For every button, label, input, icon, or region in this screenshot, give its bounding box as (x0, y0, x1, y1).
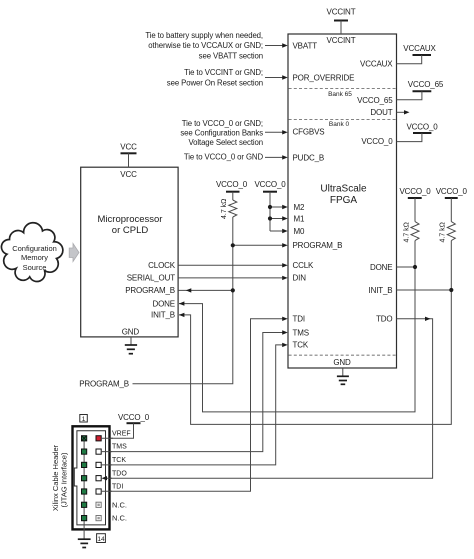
svg-text:GND: GND (333, 358, 351, 367)
svg-text:Tie to battery supply when nee: Tie to battery supply when needed, (145, 31, 263, 40)
svg-text:FPGA: FPGA (330, 195, 358, 206)
svg-text:VCCO_0: VCCO_0 (254, 180, 286, 189)
wire mode pins net M2 M1 M0 (270, 192, 288, 234)
svg-text:VCCO_0: VCCO_0 (436, 187, 468, 196)
wire TMS net (101, 330, 288, 451)
annotation CFGBVS note (180, 119, 287, 147)
power flag VCCO_0 over mode pins (254, 180, 286, 192)
svg-text:TMS: TMS (112, 444, 127, 451)
svg-text:VCCO_0: VCCO_0 (399, 187, 431, 196)
junction INIT_B pull-up (449, 288, 453, 292)
resistor R1 4.7k pull-up PROGRAM_B (221, 192, 237, 219)
svg-text:TCK: TCK (293, 341, 309, 350)
junction DONE pull-up (413, 265, 417, 269)
header pin 12 NC (96, 502, 101, 507)
svg-text:DONE: DONE (152, 299, 175, 308)
svg-text:POR_OVERRIDE: POR_OVERRIDE (293, 73, 355, 82)
svg-text:INIT_B: INIT_B (369, 286, 393, 295)
power flag VCCO_0 over R1 (216, 180, 248, 192)
DOUT output wire and arrow (397, 110, 410, 114)
wire PROGRAM_B net vertical (133, 217, 233, 384)
wire stubs from header pins (101, 438, 113, 491)
svg-text:TMS: TMS (293, 328, 309, 337)
microprocessor U2 box (81, 167, 178, 337)
svg-text:4.7 kΩ: 4.7 kΩ (221, 199, 228, 219)
FPGA U1 box (288, 34, 397, 368)
svg-text:Memory: Memory (21, 253, 48, 262)
header pin 4 TMS (96, 449, 101, 454)
wire VREF net (101, 423, 134, 438)
ground symbol header (78, 539, 91, 547)
microprocessor title (98, 214, 163, 236)
svg-text:VREF: VREF (112, 430, 131, 437)
svg-text:VCCINT: VCCINT (327, 36, 356, 45)
header pin 13 GND (82, 516, 87, 521)
wire CCLK net (178, 263, 288, 267)
wire PROGRAM_B to microprocessor (178, 288, 233, 292)
power flag VCC (120, 142, 137, 167)
svg-text:1: 1 (82, 416, 86, 423)
svg-text:Tie to VCCO_0 or GND;: Tie to VCCO_0 or GND; (182, 119, 263, 128)
header pin 8 TDO (96, 476, 101, 481)
annotation POR_OVERRIDE note (167, 68, 288, 87)
svg-text:Bank 0: Bank 0 (329, 121, 350, 128)
svg-text:M2: M2 (294, 203, 306, 212)
wire INIT_B net (179, 241, 451, 425)
arrowhead into header TDO pin (102, 476, 108, 480)
svg-text:Configuration: Configuration (12, 244, 57, 253)
svg-text:Tie to VCCINT or GND;: Tie to VCCINT or GND; (184, 68, 263, 77)
svg-text:TCK: TCK (112, 457, 126, 464)
junction M1 (268, 216, 272, 220)
svg-text:VCCINT: VCCINT (327, 7, 356, 16)
FPGA GND separator (289, 354, 396, 356)
junction PROGRAM_B uP (231, 288, 235, 292)
FPGA bank separator Bank 0 (289, 120, 396, 129)
wire DONE net (179, 241, 415, 412)
svg-text:PUDC_B: PUDC_B (293, 153, 325, 162)
svg-text:CCLK: CCLK (293, 261, 315, 270)
header pin1 index label (80, 415, 88, 423)
ground symbol microprocessor (125, 337, 137, 354)
svg-text:Voltage Select section: Voltage Select section (188, 138, 263, 147)
svg-text:DONE: DONE (370, 263, 393, 272)
header inner outline with key notch (74, 431, 105, 525)
resistor R3 4.7k pull-up INIT_B (440, 198, 456, 243)
header pin 10 TDI (96, 489, 101, 494)
svg-text:DOUT: DOUT (370, 108, 392, 117)
wire TDO net (102, 317, 433, 481)
wire TDI net (101, 317, 288, 492)
svg-text:M1: M1 (294, 214, 306, 223)
junction M2 (268, 205, 272, 209)
svg-text:CFGBVS: CFGBVS (293, 128, 325, 137)
svg-text:VCCO_65: VCCO_65 (408, 80, 444, 89)
svg-text:see Configuration Banks: see Configuration Banks (180, 129, 263, 138)
resistor R2 4.7k pull-up DONE (404, 198, 420, 243)
power flag VCCAUX (397, 44, 437, 64)
svg-text:TDI: TDI (293, 315, 305, 324)
svg-text:M0: M0 (294, 227, 306, 236)
svg-text:TDO: TDO (112, 470, 127, 477)
svg-text:Microprocessor: Microprocessor (98, 214, 163, 225)
FPGA bank separator Bank 65 (289, 89, 396, 99)
svg-text:PROGRAM_B: PROGRAM_B (79, 380, 129, 389)
svg-text:VCCO_0: VCCO_0 (361, 137, 393, 146)
svg-text:VCC: VCC (120, 142, 137, 151)
header pin 9 GND (82, 489, 87, 494)
svg-text:N.C.: N.C. (112, 514, 127, 523)
annotation PUDC_B note (184, 153, 288, 162)
svg-text:PROGRAM_B: PROGRAM_B (125, 286, 175, 295)
ground symbol FPGA (337, 368, 349, 384)
svg-text:see VBATT section: see VBATT section (199, 51, 263, 60)
header pin 14 NC (96, 516, 101, 521)
cloud text (12, 244, 57, 272)
header pin14 index label (97, 534, 106, 543)
power flag VCCO_0 bank0 (397, 122, 439, 141)
svg-text:Source: Source (23, 263, 47, 272)
svg-text:N.C.: N.C. (112, 500, 127, 509)
junction PROGRAM_B R1 (231, 243, 235, 247)
svg-text:PROGRAM_B: PROGRAM_B (293, 241, 343, 250)
power flag VCCO_65 (397, 80, 444, 100)
cloud Configuration Memory Source (1, 223, 62, 282)
svg-text:DIN: DIN (293, 274, 307, 283)
FPGA title (320, 184, 367, 207)
power flag VCCO_0 over R2 (399, 187, 431, 198)
svg-text:or CPLD: or CPLD (112, 225, 149, 236)
svg-text:INIT_B: INIT_B (151, 311, 175, 320)
svg-text:VBATT: VBATT (293, 41, 318, 50)
svg-text:GND: GND (122, 328, 140, 337)
svg-text:VCCO_0: VCCO_0 (406, 122, 438, 131)
svg-text:TDI: TDI (112, 484, 123, 491)
header pin 2 VREF (96, 436, 101, 441)
header pin 11 GND (82, 502, 87, 507)
header pin 5 GND (82, 462, 87, 467)
svg-text:VCCO_0: VCCO_0 (118, 413, 150, 422)
header pin 1 (key, GND) (82, 436, 87, 441)
wire PROGRAM_B to FPGA (233, 243, 288, 247)
svg-text:(JTAG Interface): (JTAG Interface) (60, 452, 69, 507)
svg-text:Bank 65: Bank 65 (328, 91, 352, 98)
svg-text:UltraScale: UltraScale (320, 184, 367, 195)
svg-text:VCCAUX: VCCAUX (403, 44, 436, 53)
svg-text:VCCAUX: VCCAUX (360, 60, 393, 69)
annotation VBATT note (145, 31, 287, 60)
wire TCK net (101, 343, 288, 465)
svg-text:VCCO_65: VCCO_65 (357, 96, 393, 105)
svg-text:see Power On Reset section: see Power On Reset section (167, 78, 263, 87)
Xilinx cable header box (73, 426, 110, 529)
svg-text:4.7 kΩ: 4.7 kΩ (440, 222, 447, 242)
svg-text:4.7 kΩ: 4.7 kΩ (404, 222, 411, 242)
header pin 6 TCK (96, 462, 101, 467)
svg-text:TDO: TDO (376, 315, 392, 324)
svg-text:VCC: VCC (120, 170, 137, 179)
header pin 7 GND (82, 476, 87, 481)
header pin 3 GND (82, 449, 87, 454)
svg-text:Tie to VCCO_0 or GND: Tie to VCCO_0 or GND (184, 153, 264, 162)
svg-text:otherwise tie to VCCAUX or GND: otherwise tie to VCCAUX or GND; (148, 41, 263, 50)
power flag VCCO_0 header (118, 413, 150, 423)
svg-text:CLOCK: CLOCK (148, 261, 176, 270)
header ground bus (83, 438, 85, 539)
svg-text:14: 14 (97, 536, 105, 543)
power flag VCCINT (327, 7, 356, 34)
wire DIN net (178, 276, 288, 280)
svg-text:VCCO_0: VCCO_0 (216, 180, 248, 189)
svg-text:SERIAL_OUT: SERIAL_OUT (127, 274, 176, 283)
block arrow from memory source (69, 244, 79, 262)
power flag VCCO_0 over R3 (436, 187, 468, 198)
